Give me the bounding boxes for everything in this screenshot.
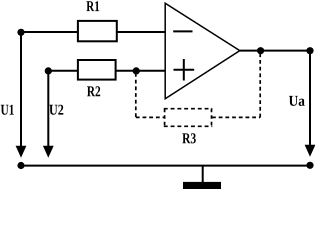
wire: output down to ground rail (Ua) xyxy=(309,51,311,146)
arrow Ua xyxy=(305,145,316,157)
junction node: bottom right xyxy=(306,162,313,169)
dashed wire: R3 tap down xyxy=(135,73,137,117)
junction node: left input U1 xyxy=(17,29,24,36)
wire: node U1 top to R1 left xyxy=(21,31,77,33)
junction node: output / feedback xyxy=(257,47,264,54)
label R3 xyxy=(182,133,196,143)
wire: op-amp output to right rail xyxy=(240,50,310,52)
wire: R1 right to op-amp inverting input xyxy=(117,31,165,33)
wire: U1 source vertical xyxy=(20,32,22,147)
wire: ground stem xyxy=(202,166,204,182)
wire: bottom ground rail xyxy=(21,165,310,167)
label R1 xyxy=(86,1,99,11)
dashed wire: to R3 left xyxy=(136,116,164,118)
op-amp minus input marker xyxy=(173,30,192,32)
ground xyxy=(183,182,221,189)
junction node: output right xyxy=(306,47,313,54)
label U2 xyxy=(49,105,63,115)
junction node: left input U2 xyxy=(45,67,52,74)
op-amp U triangle xyxy=(165,3,240,99)
arrow U1 xyxy=(16,146,27,158)
resistor R3 (dashed) xyxy=(164,109,213,127)
junction node: non-inverting input / R3 tap xyxy=(133,67,140,74)
op-amp plus input marker xyxy=(174,59,195,81)
arrow U2 xyxy=(43,146,54,158)
junction node: bottom left xyxy=(17,162,24,169)
dashed wire: up to output node xyxy=(259,53,261,117)
wire: R2 right to op-amp non-inverting input xyxy=(116,70,165,72)
dashed wire: R3 right xyxy=(212,116,260,118)
resistor R2 xyxy=(78,60,116,80)
wire: U2 source vertical xyxy=(47,71,49,147)
resistor R1 xyxy=(78,21,117,41)
wire: node U2 to R2 left xyxy=(48,70,77,72)
label R2 xyxy=(87,86,100,96)
label Ua xyxy=(289,96,305,106)
label U1 xyxy=(1,105,14,115)
